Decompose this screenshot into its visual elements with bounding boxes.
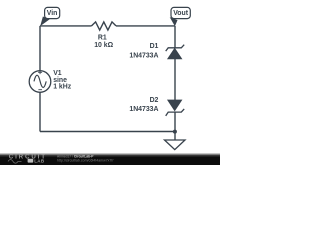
- svg-text:http://circuitlab.com/c6t4t4am: http://circuitlab.com/c6t4t4amw7x7f/: [57, 158, 113, 162]
- flag Vout: [170, 7, 191, 26]
- wire: bottom horizontal to ground junction: [40, 131, 175, 133]
- wire: between D1 and D2: [174, 59, 176, 100]
- wire: right vertical from Vout corner to D1: [174, 26, 176, 48]
- svg-text:1 kHz: 1 kHz: [53, 84, 72, 91]
- svg-text:D1: D1: [150, 43, 159, 50]
- svg-text:10 kΩ: 10 kΩ: [94, 42, 113, 49]
- voltage source V1 (sine): [29, 70, 51, 92]
- svg-text:Vin: Vin: [47, 10, 58, 17]
- zener diode D1 (cathode up): [166, 45, 185, 59]
- ground symbol: [165, 132, 186, 150]
- flag Vin: [40, 7, 59, 26]
- resistor R1: [92, 22, 117, 30]
- svg-text:1N4733A: 1N4733A: [129, 106, 158, 113]
- svg-text:LAB: LAB: [34, 159, 45, 164]
- svg-text:Vout: Vout: [173, 10, 189, 17]
- wire: top horizontal from Vin corner to R1: [40, 25, 92, 27]
- wire: D2 down to ground junction: [174, 111, 176, 131]
- svg-text:1N4733A: 1N4733A: [129, 52, 158, 59]
- junction dot at ground node: [173, 130, 177, 134]
- wire: left vertical from Vin corner to V1: [39, 26, 41, 71]
- svg-text:D2: D2: [150, 97, 159, 104]
- zener diode D2 (cathode down): [166, 100, 185, 116]
- wire: top horizontal from R1 to Vout corner: [116, 25, 175, 27]
- wire: V1 to bottom-left corner: [39, 92, 41, 131]
- svg-text:R1: R1: [98, 35, 107, 42]
